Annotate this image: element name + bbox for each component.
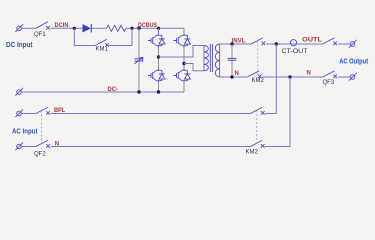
transistor Q4 bottom-right IGBT <box>174 69 191 83</box>
terminal AC output live <box>349 40 357 48</box>
wire N line <box>220 76 248 78</box>
terminal AC input live <box>15 109 23 117</box>
breaker QF2 lower pole <box>36 140 50 147</box>
wire BPL line <box>51 113 251 115</box>
wire DCBUS rail <box>126 27 184 29</box>
transistor Q2 top-right IGBT <box>174 34 191 48</box>
svg-text:QF1: QF1 <box>34 32 46 38</box>
svg-text:AC Input: AC Input <box>12 128 38 135</box>
linkage KM2 bypass contacts (dashed) <box>256 110 258 144</box>
wire primary upper lead <box>159 46 205 58</box>
capacitor bus C1 <box>134 57 143 64</box>
wire left leg bottom stub <box>158 83 160 93</box>
svg-text:QF3: QF3 <box>323 80 335 86</box>
wire <box>91 27 106 29</box>
wire INVL line <box>220 43 251 45</box>
terminal DC input negative <box>15 88 23 96</box>
wire right leg middle <box>183 48 185 69</box>
transistor Q3 bottom-left IGBT <box>148 69 165 83</box>
wire KM1 branch <box>74 28 132 45</box>
contactor KM2 inverter contact (neutral) <box>247 71 261 78</box>
capacitor output filter C2 <box>228 58 236 60</box>
node junction left leg top <box>157 27 160 30</box>
resistor R1 <box>107 25 126 31</box>
node junction bypass join (OUTL) <box>275 42 278 45</box>
svg-text:N: N <box>235 71 239 77</box>
wire DC- rail <box>21 91 184 93</box>
wire <box>262 76 322 78</box>
transistor Q1 top-left IGBT <box>148 34 165 48</box>
contactor KM2 bypass contact (neutral) <box>250 140 264 147</box>
node junction right leg mid <box>182 62 185 65</box>
terminal AC input neutral <box>15 142 23 150</box>
wire <box>21 27 36 29</box>
wire bypass neutral riser <box>265 77 290 147</box>
svg-text:N: N <box>307 71 311 77</box>
transformer T1 core <box>210 44 212 72</box>
transformer T1 primary winding <box>203 46 205 71</box>
svg-text:KM2: KM2 <box>246 149 259 155</box>
svg-text:QF2: QF2 <box>34 151 46 157</box>
svg-text:KM1: KM1 <box>96 46 109 52</box>
wire bus-cap branch upper <box>138 28 140 58</box>
node junction left leg mid <box>157 55 160 58</box>
wire N bypass line <box>51 146 251 148</box>
wire bypass live riser <box>265 44 277 114</box>
breaker QF2 upper pole <box>36 107 50 114</box>
diode D1 <box>83 24 92 32</box>
wire left leg top stub <box>158 28 160 33</box>
node junction at DCIN <box>73 27 76 30</box>
node junction N / bypass neutral join <box>288 75 291 78</box>
node junction cap bottom <box>137 90 140 93</box>
wire bus-cap branch lower <box>138 61 140 92</box>
contactor KM2 inverter contact (live) <box>251 38 265 45</box>
svg-text:KM2: KM2 <box>252 78 265 84</box>
wire <box>21 146 36 148</box>
node junction filter cap top <box>230 42 233 45</box>
svg-text:CT-OUT: CT-OUT <box>282 49 308 55</box>
svg-text:DC Input: DC Input <box>6 42 33 49</box>
wire <box>338 76 350 78</box>
wire right leg top stub <box>183 28 185 33</box>
svg-text:AC Output: AC Output <box>339 58 369 65</box>
wire <box>51 27 83 29</box>
contactor KM1 <box>95 39 109 46</box>
node junction bypass rejoin <box>130 27 133 30</box>
contactor KM2 bypass contact (live) <box>250 107 264 114</box>
wire right leg bottom stub <box>183 83 185 93</box>
breaker QF3 lower pole <box>323 71 337 78</box>
breaker QF3 upper pole <box>323 38 337 45</box>
breaker QF1 <box>36 22 50 30</box>
node junction bus-cap tap <box>137 27 140 30</box>
node junction left leg bottom <box>157 90 160 93</box>
wire primary lower lead <box>184 64 204 71</box>
terminal DC input positive <box>15 24 23 32</box>
svg-text:OUTL: OUTL <box>302 37 322 43</box>
wire <box>338 43 350 45</box>
wire left leg middle <box>158 48 160 69</box>
node junction filter cap bottom <box>230 75 233 78</box>
wire filter cap branch <box>231 44 233 77</box>
wire <box>266 43 323 45</box>
linkage QF2 poles (dashed) <box>41 111 43 144</box>
transformer T1 secondary winding <box>219 44 221 77</box>
current transformer CT-OUT <box>290 40 296 46</box>
svg-text:BPL: BPL <box>54 108 65 114</box>
terminal AC output neutral <box>349 73 357 81</box>
wire <box>21 113 36 115</box>
linkage KM2 inverter contacts (dashed) <box>257 41 259 75</box>
